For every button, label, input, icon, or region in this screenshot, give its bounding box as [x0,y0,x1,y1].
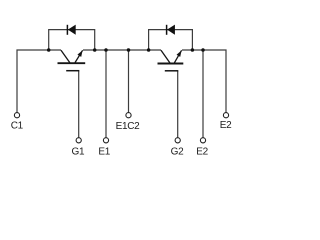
wire E1C2 down [128,50,130,113]
terminal circle E1 [103,138,108,143]
svg-text:E1: E1 [98,147,110,158]
wire diode D2 loop [149,30,193,50]
Q2 emitter diagonal with arrow [174,50,181,63]
wire E1 sense down [105,50,107,138]
svg-text:G1: G1 [72,147,85,158]
svg-text:E1C2: E1C2 [116,121,141,132]
terminal circle E2 sense [200,138,205,143]
Q1 gate plate [66,70,79,72]
terminal circle G1 [76,138,81,143]
Q1 collector diagonal [61,50,70,62]
terminal circle C1 [14,113,19,118]
svg-text:E2: E2 [220,120,232,131]
Q1 emitter diagonal with arrow [75,50,83,62]
wire E2 bus top-right [182,50,226,113]
wire gate lead G1 [78,71,80,138]
node junction dot D2 anode bus [147,48,151,52]
terminal circle G2 [175,138,180,143]
terminal circle E2 main [223,113,228,118]
node junction dot D1 cathode bus [93,48,97,52]
node junction dot E1 [104,48,108,52]
wire diode D1 loop [49,30,95,50]
node junction dot E2 sense [201,48,205,52]
terminal circle E1C2 [126,113,131,118]
node junction dot D1 anode bus [47,48,51,52]
Q2 collector diagonal [161,50,170,63]
diode D2 [167,25,175,35]
node junction dot D2 cathode bus [191,48,195,52]
wire E1/E1C2 bus [83,49,161,51]
svg-text:E2: E2 [196,147,208,158]
Q2 body bar [158,63,184,65]
wire E2 sense down [202,50,204,138]
diode D1 [67,25,75,35]
node junction dot E1C2 [127,48,131,52]
Q2 gate plate [165,70,179,72]
transistor Q2 (IGBT) [158,50,184,71]
transistor Q1 (IGBT) [58,50,86,70]
svg-text:G2: G2 [171,147,184,158]
Q1 body bar [58,62,86,64]
svg-text:C1: C1 [11,121,24,132]
wire gate lead G2 [177,71,179,138]
wire C1 bus top-left [17,50,61,113]
